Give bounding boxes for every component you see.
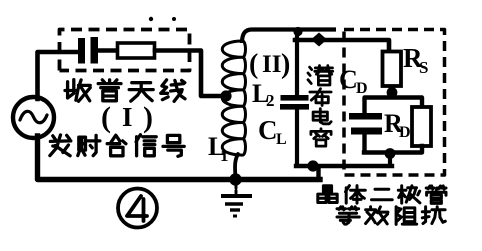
wire coil top [242, 30, 336, 44]
figure number 4 [118, 189, 157, 228]
resistor RS [383, 52, 402, 87]
node dot loop bottom [385, 148, 396, 159]
node dot below RS [387, 87, 398, 98]
node tap dot [220, 90, 231, 101]
node coil-ground dot [229, 173, 241, 185]
svg-text:I: I [122, 102, 133, 132]
capacitor antenna [78, 38, 85, 64]
wire loop top [365, 98, 423, 114]
svg-text:S: S [419, 58, 428, 77]
wire cap bottom [362, 135, 366, 153]
wire jog to ground bus [316, 166, 320, 180]
svg-text:(: ( [101, 101, 111, 134]
AC source G1 [13, 97, 54, 138]
capacitor CD plates [349, 113, 382, 120]
node bottom dot [307, 160, 318, 171]
inductor L1 L2 coil [222, 41, 245, 155]
wire CL branch vertical top [295, 30, 299, 96]
label jingtierjiguang [318, 186, 337, 203]
svg-text:L: L [276, 131, 287, 148]
svg-text:D: D [356, 80, 368, 97]
wire source-bottom [38, 136, 321, 180]
label qianbudianrong vertical [308, 66, 333, 85]
svg-text:D: D [399, 124, 411, 141]
svg-text:1: 1 [220, 146, 229, 165]
capacitor CL plates [281, 95, 309, 101]
ground [235, 185, 238, 193]
resistor antenna [118, 43, 155, 58]
wire bottom inside box [296, 164, 392, 168]
wire source-top [38, 52, 80, 99]
svg-text:2: 2 [266, 91, 275, 110]
label dengxiaozukang [337, 207, 359, 224]
wire CL branch vertical bottom [295, 109, 299, 166]
label fashetaixinhao [50, 135, 71, 156]
wire loop to bottom node [388, 153, 392, 166]
svg-text:C: C [258, 115, 278, 145]
svg-text:II: II [262, 51, 281, 78]
node input dot [311, 33, 327, 47]
wire RS bottom [389, 86, 393, 97]
wire antenna to coil tap [155, 51, 225, 97]
svg-text:C: C [339, 65, 358, 94]
label shouyintianxian [65, 80, 90, 102]
svg-text:): ) [281, 49, 290, 80]
svg-text:(: ( [249, 49, 258, 80]
wire coil bottom [235, 154, 238, 178]
svg-text:): ) [143, 101, 153, 134]
wire [98, 48, 118, 53]
resistor RD [412, 107, 431, 146]
wire tank to RS [295, 40, 389, 52]
node dot top of CL [293, 27, 302, 36]
dashed box antenna [60, 30, 190, 71]
dashed box diode equivalent [344, 30, 445, 176]
wire loop bottom [364, 146, 422, 153]
